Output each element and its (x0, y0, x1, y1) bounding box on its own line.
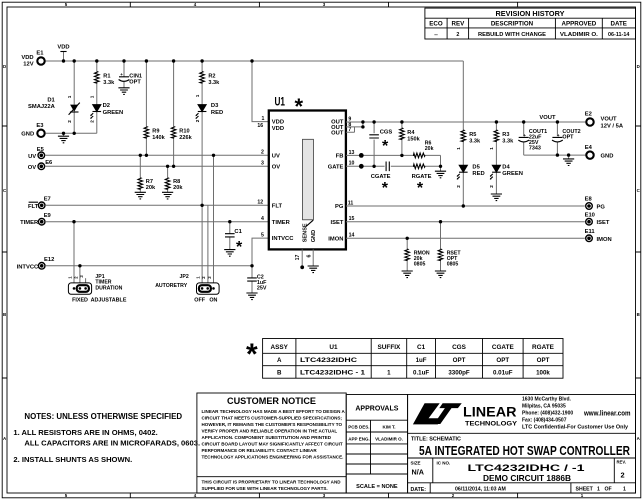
svg-text:ASSY: ASSY (270, 344, 288, 351)
svg-text:SCALE = NONE: SCALE = NONE (356, 484, 398, 490)
svg-text:ON: ON (209, 297, 217, 303)
svg-text:3.3k: 3.3k (208, 80, 220, 86)
svg-text:5A INTEGRATED HOT SWAP CONTROL: 5A INTEGRATED HOT SWAP CONTROLLER (419, 444, 630, 458)
svg-text:7343: 7343 (529, 146, 541, 152)
capacitor CGATE (371, 162, 391, 198)
customer notice box (197, 393, 346, 493)
resistor R5 (461, 61, 481, 165)
svg-text:FLT: FLT (272, 203, 283, 209)
svg-text:E10: E10 (585, 212, 595, 218)
svg-text:ALL CAPACITORS ARE IN MICROFAR: ALL CAPACITORS ARE IN MICROFARADS, 0603. (24, 439, 200, 448)
svg-text:1. ALL RESISTORS ARE IN OHMS,: 1. ALL RESISTORS ARE IN OHMS, 0402. (13, 428, 157, 437)
svg-text:TECHNOLOGY: TECHNOLOGY (465, 420, 518, 427)
svg-text:1: 1 (195, 94, 200, 97)
svg-text:AUTORETRY: AUTORETRY (155, 283, 188, 289)
svg-text:UV: UV (272, 153, 280, 159)
svg-text:B: B (277, 369, 282, 376)
svg-text:D: D (637, 64, 640, 69)
svg-text:3.3k: 3.3k (502, 138, 514, 144)
svg-text:1: 1 (90, 95, 95, 98)
svg-text:RED: RED (211, 110, 223, 116)
svg-text:4: 4 (194, 2, 197, 7)
diode D1 SMAJ22A (28, 61, 80, 133)
capacitor C2 (246, 266, 267, 300)
svg-text:OUT: OUT (331, 130, 344, 136)
ground at RGATE node (435, 166, 446, 178)
svg-text:3: 3 (261, 161, 264, 167)
svg-text:LTC4232IDHC - 1: LTC4232IDHC - 1 (300, 369, 366, 376)
svg-text:APPLICATION. COMPONENT SUBSTI: APPLICATION. COMPONENT SUBSTITUTION AND … (202, 435, 332, 440)
svg-text:IMON: IMON (328, 236, 343, 242)
resistor R10 (171, 61, 192, 166)
svg-text:D: D (3, 64, 6, 69)
resistor R1 (95, 61, 116, 105)
LED D4 green (489, 147, 523, 201)
wire UV line (45, 154, 269, 156)
U1 pin 6 ground (306, 249, 318, 272)
terminal E9 (20, 213, 51, 226)
revision history table (425, 8, 636, 39)
svg-text:OF: OF (605, 487, 612, 493)
svg-text:R3: R3 (502, 132, 509, 138)
svg-text:R9: R9 (152, 129, 159, 135)
svg-text:1uF: 1uF (416, 357, 427, 364)
svg-text:1630 McCarthy Blvd.: 1630 McCarthy Blvd. (522, 397, 572, 403)
svg-text:226k: 226k (179, 135, 192, 141)
svg-text:ISET: ISET (331, 220, 344, 226)
svg-text:*: * (236, 239, 243, 256)
LED D2 green (90, 95, 124, 133)
svg-text:OPT: OPT (496, 357, 509, 364)
svg-text:OPT: OPT (129, 80, 141, 86)
svg-text:E8: E8 (585, 197, 593, 203)
svg-text:VDD: VDD (57, 44, 69, 50)
svg-text:LINEAR: LINEAR (463, 405, 517, 420)
resistor R6 (413, 141, 434, 158)
svg-text:A: A (3, 436, 7, 441)
svg-text:OPT: OPT (453, 357, 466, 364)
svg-text:RGATE: RGATE (532, 344, 555, 351)
svg-text:FLT: FLT (28, 204, 39, 210)
svg-text:+: + (557, 133, 560, 138)
capacitor CIN1 (118, 61, 142, 94)
svg-text:D3: D3 (211, 103, 219, 109)
svg-text:E6: E6 (45, 160, 53, 166)
svg-text:LTC4232IDHC: LTC4232IDHC (300, 357, 358, 364)
terminal E2 (585, 112, 624, 130)
svg-text:*: * (246, 338, 258, 371)
svg-text:TITLE: SCHEMATIC: TITLE: SCHEMATIC (411, 437, 461, 443)
svg-text:2: 2 (489, 185, 494, 188)
svg-text:E5: E5 (37, 147, 45, 153)
svg-text:GND: GND (311, 230, 317, 242)
node GATE pin dot (359, 164, 364, 169)
svg-text:OV: OV (28, 165, 37, 171)
capacitor C1 (224, 222, 243, 257)
wire COUT ground line (524, 154, 586, 156)
svg-text:*: * (417, 180, 424, 197)
svg-text:--: -- (434, 32, 438, 38)
terminal E3 (21, 123, 44, 138)
svg-text:SUPPLIED FOR USE WITH LINEAR T: SUPPLIED FOR USE WITH LINEAR TECHNOLOGY … (202, 486, 328, 491)
terminal E11 (585, 229, 612, 243)
svg-text:5: 5 (65, 493, 68, 498)
svg-text:REBUILD WITH CHANGE: REBUILD WITH CHANGE (478, 32, 546, 38)
svg-text:0805: 0805 (447, 262, 459, 268)
svg-text:0.1uF: 0.1uF (413, 369, 429, 376)
svg-text:SHEET: SHEET (576, 487, 594, 493)
svg-text:E7: E7 (44, 196, 51, 202)
wire TIMER line (45, 221, 269, 223)
svg-text:6: 6 (306, 254, 312, 257)
svg-text:2. INSTALL SHUNTS AS SHOWN.: 2. INSTALL SHUNTS AS SHOWN. (13, 455, 132, 464)
svg-text:B: B (637, 312, 640, 317)
terminal E7 (28, 196, 51, 209)
terminal E12 (17, 257, 55, 270)
svg-text:25V: 25V (257, 285, 267, 291)
wire IMON line (346, 237, 585, 239)
svg-text:D1: D1 (47, 98, 55, 104)
terminal E8 (585, 197, 606, 211)
svg-text:VERIFY PROPER AND RELIABLE OPE: VERIFY PROPER AND RELIABLE OPERATION IN … (202, 428, 338, 433)
svg-text:CUSTOMER NOTICE: CUSTOMER NOTICE (227, 396, 316, 406)
svg-text:1: 1 (387, 369, 391, 376)
wire JP2 pin2 from FLT (207, 205, 209, 286)
svg-text:OV: OV (272, 164, 281, 170)
address block (522, 397, 631, 431)
svg-text:3300pF: 3300pF (448, 369, 470, 376)
svg-text:D4: D4 (502, 164, 510, 170)
svg-text:2: 2 (90, 120, 95, 123)
svg-text:CGATE: CGATE (492, 344, 515, 351)
svg-text:0805: 0805 (414, 262, 426, 268)
ground at COUT line (563, 155, 574, 165)
svg-text:R8: R8 (173, 179, 180, 185)
op-amp U1 LTC4232 body (269, 94, 346, 250)
svg-text:GREEN: GREEN (502, 171, 523, 177)
resistor R7 (135, 155, 156, 199)
wire GATE line (346, 165, 441, 167)
svg-text:*: * (382, 180, 389, 197)
svg-text:GATE: GATE (328, 164, 344, 170)
resistor RMON (402, 238, 430, 277)
wire JP2 pin3 from UV (213, 155, 215, 286)
svg-text:+: + (523, 133, 526, 138)
svg-text:06/11/2014, 11:03 AM: 06/11/2014, 11:03 AM (455, 487, 506, 493)
svg-text:C1: C1 (234, 229, 242, 235)
terminal E6 (28, 160, 53, 171)
svg-text:R7: R7 (146, 179, 153, 185)
frame column ticks (130, 2, 517, 498)
node FB pin dot (359, 153, 364, 158)
svg-text:1: 1 (262, 116, 265, 122)
svg-text:APPROVALS: APPROVALS (355, 406, 398, 413)
svg-text:CIN1: CIN1 (129, 73, 142, 79)
resistor R4 (400, 122, 421, 155)
svg-text:20k: 20k (146, 185, 156, 191)
svg-text:GND: GND (21, 132, 34, 138)
terminal E5 (28, 147, 45, 160)
svg-text:NOTES: UNLESS OTHERWISE SPECI: NOTES: UNLESS OTHERWISE SPECIFIED (24, 412, 182, 421)
svg-text:SMAJ22A: SMAJ22A (28, 104, 56, 110)
svg-text:+: + (120, 72, 123, 77)
svg-text:REVISION HISTORY: REVISION HISTORY (496, 9, 565, 18)
svg-text:2: 2 (620, 471, 624, 480)
svg-text:ISET: ISET (597, 220, 610, 226)
wire FLT line (45, 204, 269, 206)
wire IC VDD feed (252, 61, 269, 122)
svg-text:1: 1 (456, 147, 461, 150)
svg-text:1: 1 (489, 147, 494, 150)
wire ISET line (346, 221, 585, 223)
svg-text:DATE:: DATE: (411, 487, 427, 493)
svg-text:140k: 140k (152, 135, 165, 141)
svg-text:FB: FB (336, 154, 344, 160)
svg-text:E4: E4 (585, 145, 593, 151)
svg-text:GREEN: GREEN (103, 110, 124, 116)
svg-text:R5: R5 (469, 132, 476, 138)
LED D3 red (195, 94, 223, 286)
wire JP1 pin1 from TIMER (73, 222, 75, 287)
wire GND line from E3 (46, 132, 97, 134)
svg-text:HOWEVER, IT REMAINS THE CUSTOM: HOWEVER, IT REMAINS THE CUSTOMER'S RESPO… (202, 422, 343, 427)
svg-text:R1: R1 (103, 74, 110, 80)
capacitor COUT2 (552, 122, 581, 155)
svg-text:E11: E11 (585, 229, 596, 235)
svg-text:2: 2 (261, 150, 264, 156)
svg-text:SUFFIX: SUFFIX (378, 344, 401, 351)
svg-text:16: 16 (257, 123, 263, 129)
svg-text:R4: R4 (407, 130, 415, 136)
svg-text:1: 1 (68, 276, 73, 279)
svg-text:2: 2 (195, 119, 200, 122)
svg-text:PG: PG (335, 204, 344, 210)
U1 right pin names (328, 120, 344, 243)
svg-text:KIM T.: KIM T. (383, 425, 396, 430)
svg-text:E1: E1 (36, 50, 44, 56)
svg-text:VDD: VDD (272, 126, 284, 132)
svg-text:APP ENG.: APP ENG. (348, 436, 369, 441)
svg-text:5: 5 (261, 233, 264, 239)
LED D5 red (456, 147, 485, 206)
svg-text:VOUT: VOUT (539, 115, 556, 121)
VDD power symbol (57, 44, 69, 61)
svg-text:D2: D2 (103, 103, 110, 109)
frame row ticks (2, 126, 641, 378)
svg-text:U1: U1 (275, 96, 286, 108)
svg-text:REV: REV (452, 21, 466, 28)
svg-text:APPROVED: APPROVED (562, 21, 597, 28)
svg-text:TIMER: TIMER (272, 220, 291, 226)
svg-text:DEMO CIRCUIT 1886B: DEMO CIRCUIT 1886B (483, 474, 571, 483)
wire OUT pin7 (346, 127, 355, 132)
svg-text:20k: 20k (173, 185, 183, 191)
title block (408, 395, 636, 494)
svg-text:2: 2 (456, 185, 461, 188)
wire JP1 pin2 from INTVCC (79, 266, 81, 287)
svg-text:OFF: OFF (194, 297, 205, 303)
resistor R2 (200, 61, 220, 105)
svg-text:12V / 5A: 12V / 5A (601, 124, 624, 130)
jumper JP2 autoretry (155, 274, 219, 304)
svg-text:C: C (3, 188, 7, 193)
svg-text:*: * (382, 138, 389, 155)
svg-text:GND: GND (601, 154, 614, 160)
svg-text:3.3k: 3.3k (469, 138, 481, 144)
svg-text:2: 2 (67, 120, 72, 123)
svg-text:LTC4232IDHC / -1: LTC4232IDHC / -1 (468, 463, 586, 474)
svg-text:100k: 100k (536, 369, 550, 376)
svg-text:TIMER: TIMER (20, 220, 39, 226)
resistor R9 (144, 61, 166, 155)
jumper JP1 timer duration (68, 274, 127, 304)
svg-text:3: 3 (323, 2, 326, 7)
svg-text:www.linear.com: www.linear.com (583, 410, 630, 417)
svg-text:ECO: ECO (429, 21, 443, 28)
svg-text:Phone: (408)432-1900: Phone: (408)432-1900 (522, 411, 573, 417)
svg-text:INTVCC: INTVCC (17, 264, 39, 270)
svg-text:12V: 12V (23, 62, 33, 68)
svg-text:INTVCC: INTVCC (272, 236, 294, 242)
svg-text:N/A: N/A (412, 468, 424, 477)
terminal E4 (585, 145, 614, 160)
U1 pin 17 pad (295, 249, 304, 269)
svg-text:5: 5 (65, 2, 68, 7)
svg-text:2: 2 (456, 32, 459, 38)
svg-text:CIRCUIT BOARD LAYOUT MAY SIGNI: CIRCUIT BOARD LAYOUT MAY SIGNIFICANTLY A… (202, 441, 343, 446)
svg-text:VLADIMIR O.: VLADIMIR O. (375, 436, 403, 441)
resistor RSET (435, 222, 461, 278)
svg-text:E2: E2 (585, 112, 592, 118)
svg-text:UV: UV (28, 154, 36, 160)
svg-text:FIXED: FIXED (72, 297, 88, 303)
resistor RGATE (412, 164, 432, 197)
wire JP1 pin3 stub (85, 278, 87, 286)
svg-text:E9: E9 (44, 213, 52, 219)
resistor R8 (162, 166, 183, 199)
wire INTVCC pin feed (252, 238, 269, 266)
svg-text:1: 1 (196, 276, 201, 279)
svg-text:OPT: OPT (562, 135, 574, 141)
svg-text:VDD: VDD (21, 55, 33, 61)
svg-text:VOUT: VOUT (601, 117, 618, 123)
svg-text:SIZE: SIZE (411, 460, 421, 465)
svg-text:C: C (637, 188, 641, 193)
svg-text:4: 4 (261, 216, 264, 222)
svg-text:PERFORMANCE OR RELIABILITY. C: PERFORMANCE OR RELIABILITY. CONTACT LINE… (202, 448, 318, 453)
svg-text:R10: R10 (179, 129, 189, 135)
wire VDD rail (45, 60, 463, 62)
svg-text:06-11-14: 06-11-14 (608, 32, 629, 38)
svg-text:B: B (3, 312, 6, 317)
wire FB line (346, 155, 441, 166)
terminal E10 (585, 212, 610, 226)
svg-text:REV.: REV. (617, 460, 626, 465)
Linear Technology logo (413, 403, 518, 427)
svg-text:SENSE: SENSE (303, 223, 309, 242)
svg-text:LTC Confidential-For Customer: LTC Confidential-For Customer Use Only (522, 425, 628, 431)
U1 pin numbers (257, 116, 354, 239)
resistor R3 (494, 122, 514, 165)
assembly options table (246, 338, 563, 378)
svg-text:TECHNOLOGY APPLICATIONS ENGINE: TECHNOLOGY APPLICATIONS ENGINEERING FOR … (202, 454, 344, 459)
wire PG line (346, 205, 585, 207)
U1 left pin names (272, 120, 294, 243)
capacitor COUT1 (518, 122, 547, 155)
svg-text:0.01uF: 0.01uF (493, 369, 513, 376)
svg-text:PCB DES.: PCB DES. (348, 425, 369, 430)
svg-text:*: * (295, 94, 304, 119)
svg-text:DURATION: DURATION (95, 285, 122, 291)
capacitor CGS (369, 122, 392, 166)
svg-text:R2: R2 (208, 74, 215, 80)
svg-text:C1: C1 (417, 344, 426, 351)
wire OUT rail (346, 121, 586, 123)
svg-text:OPT: OPT (537, 357, 550, 364)
wire INTVCC line (45, 265, 252, 267)
svg-text:A: A (637, 436, 641, 441)
approvals box (346, 395, 407, 494)
svg-text:DESCRIPTION: DESCRIPTION (491, 21, 534, 28)
svg-text:3.3k: 3.3k (103, 80, 115, 86)
svg-text:VDD: VDD (272, 120, 284, 126)
svg-text:D5: D5 (472, 164, 480, 170)
terminal E1 (21, 50, 44, 67)
svg-text:VLADIMIR O.: VLADIMIR O. (560, 32, 599, 38)
svg-text:IC NO.: IC NO. (437, 460, 451, 465)
svg-text:Milpitas, CA 95035: Milpitas, CA 95035 (522, 404, 566, 410)
svg-text:1: 1 (597, 487, 600, 493)
svg-text:THIS CIRCUIT IS PROPRIETARY TO: THIS CIRCUIT IS PROPRIETARY TO LINEAR TE… (202, 480, 342, 485)
svg-text:LINEAR TECHNOLOGY HAS MADE A B: LINEAR TECHNOLOGY HAS MADE A BEST EFFORT… (202, 409, 346, 414)
svg-text:DATE: DATE (611, 21, 627, 28)
svg-text:RED: RED (472, 171, 484, 177)
svg-text:4: 4 (194, 493, 197, 498)
ground at GND line (58, 133, 69, 143)
svg-text:CGS: CGS (380, 129, 393, 135)
svg-text:JP2: JP2 (180, 274, 189, 280)
svg-text:1: 1 (67, 95, 72, 98)
svg-text:CGS: CGS (452, 344, 467, 351)
svg-text:150k: 150k (407, 136, 420, 142)
wire OV line (45, 165, 269, 167)
svg-text:PG: PG (597, 205, 606, 211)
wire OUT pin8 (346, 122, 363, 127)
svg-text:Fax: (408)434-0507: Fax: (408)434-0507 (522, 418, 567, 424)
svg-text:E3: E3 (36, 123, 44, 129)
svg-text:20k: 20k (425, 146, 434, 152)
svg-text:ADJUSTABLE: ADJUSTABLE (91, 297, 127, 303)
svg-text:E12: E12 (44, 257, 54, 263)
node VOUT label (539, 115, 556, 121)
svg-text:U1: U1 (329, 344, 338, 351)
svg-text:A: A (277, 357, 282, 364)
svg-text:CIRCUIT THAT MEETS CUSTOMER-SU: CIRCUIT THAT MEETS CUSTOMER-SUPPLIED SPE… (202, 415, 343, 420)
U1 internal sense element (303, 139, 317, 242)
svg-text:IMON: IMON (597, 237, 612, 243)
svg-text:12: 12 (257, 200, 263, 206)
svg-text:1: 1 (623, 487, 626, 493)
notes text (13, 412, 200, 464)
svg-text:17: 17 (295, 255, 301, 261)
